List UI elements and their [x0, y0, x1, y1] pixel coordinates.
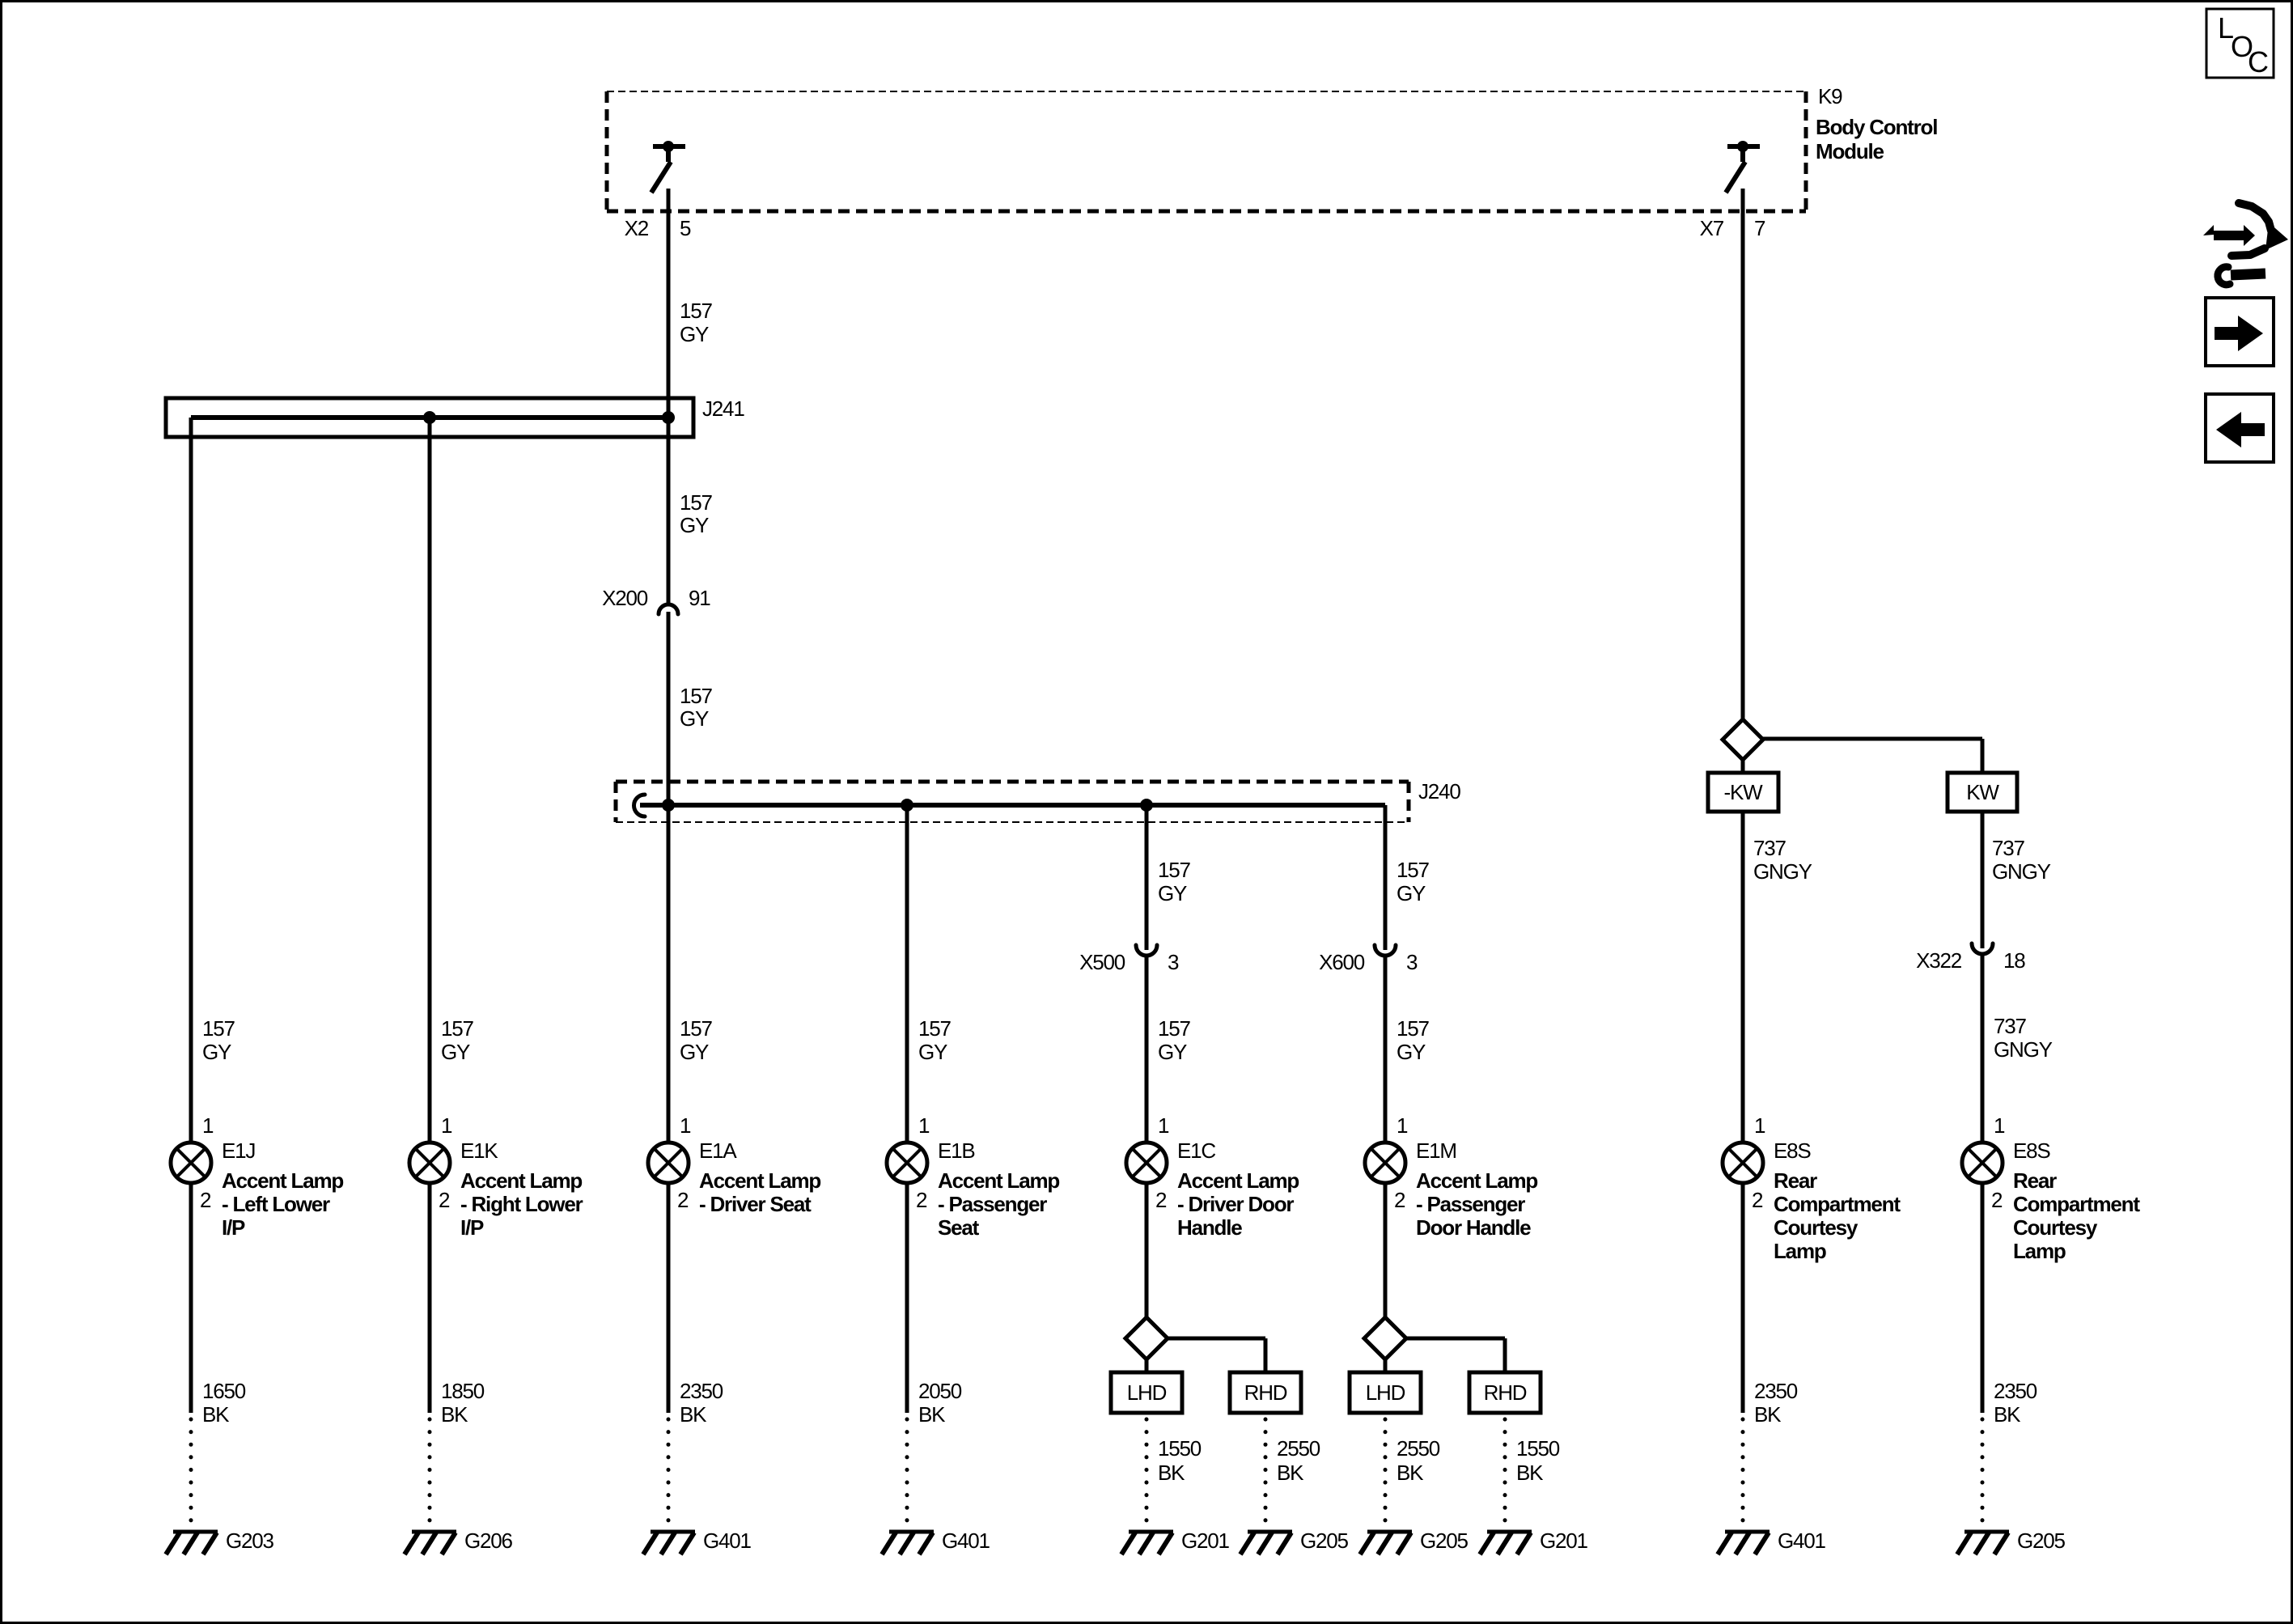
svg-text:1: 1 [1397, 1113, 1408, 1138]
svg-text:- Driver Seat: - Driver Seat [699, 1192, 812, 1216]
svg-text:1: 1 [680, 1113, 691, 1138]
svg-text:157: 157 [918, 1016, 952, 1041]
svg-text:- Passenger: - Passenger [1416, 1192, 1525, 1216]
svg-text:BK: BK [1158, 1461, 1185, 1485]
svg-text:G401: G401 [1778, 1529, 1826, 1553]
svg-text:- Right Lower: - Right Lower [460, 1192, 583, 1216]
svg-text:E1K: E1K [460, 1138, 498, 1163]
svg-text:157: 157 [441, 1016, 474, 1041]
svg-text:2: 2 [1394, 1188, 1405, 1212]
svg-text:KW: KW [1966, 780, 1999, 804]
svg-text:X2: X2 [625, 216, 649, 240]
svg-text:I/P: I/P [222, 1215, 245, 1240]
svg-text:Lamp: Lamp [2013, 1239, 2066, 1263]
svg-text:2050: 2050 [918, 1379, 962, 1403]
svg-text:BK: BK [1994, 1402, 2021, 1427]
svg-text:G401: G401 [703, 1529, 752, 1553]
svg-text:Rear: Rear [2013, 1168, 2057, 1193]
svg-text:BK: BK [680, 1402, 707, 1427]
svg-text:91: 91 [689, 586, 710, 610]
svg-text:157: 157 [202, 1016, 235, 1041]
svg-text:1: 1 [1158, 1113, 1169, 1138]
svg-text:E1A: E1A [699, 1138, 737, 1163]
svg-text:Lamp: Lamp [1774, 1239, 1826, 1263]
svg-text:157: 157 [680, 684, 713, 708]
svg-text:7: 7 [1754, 216, 1765, 240]
svg-text:Accent Lamp: Accent Lamp [938, 1168, 1059, 1193]
svg-text:737: 737 [1753, 836, 1787, 860]
svg-text:1: 1 [441, 1113, 452, 1138]
svg-text:BK: BK [441, 1402, 468, 1427]
svg-text:E8S: E8S [2013, 1138, 2050, 1163]
svg-text:E8S: E8S [1774, 1138, 1811, 1163]
svg-text:LHD: LHD [1127, 1380, 1167, 1405]
svg-text:-KW: -KW [1724, 780, 1764, 804]
svg-text:I/P: I/P [460, 1215, 484, 1240]
svg-text:J240: J240 [1418, 779, 1460, 804]
svg-text:2: 2 [439, 1188, 450, 1212]
svg-text:1: 1 [1754, 1113, 1765, 1138]
svg-text:1850: 1850 [441, 1379, 485, 1403]
svg-text:E1B: E1B [938, 1138, 975, 1163]
svg-text:2: 2 [916, 1188, 927, 1212]
svg-text:GY: GY [1397, 1040, 1426, 1064]
svg-text:LHD: LHD [1366, 1380, 1405, 1405]
svg-text:2350: 2350 [1994, 1379, 2037, 1403]
svg-text:K9: K9 [1818, 84, 1842, 108]
svg-text:2: 2 [1991, 1188, 2003, 1212]
svg-text:157: 157 [680, 490, 713, 515]
svg-text:1: 1 [1994, 1113, 2005, 1138]
svg-text:Accent Lamp: Accent Lamp [222, 1168, 343, 1193]
svg-text:GNGY: GNGY [1992, 859, 2051, 884]
svg-text:157: 157 [1158, 858, 1191, 882]
svg-text:G201: G201 [1181, 1529, 1230, 1553]
svg-text:157: 157 [680, 299, 713, 323]
svg-text:BK: BK [918, 1402, 946, 1427]
svg-text:Handle: Handle [1177, 1215, 1242, 1240]
svg-text:GY: GY [680, 706, 709, 731]
svg-text:J241: J241 [702, 396, 744, 421]
svg-text:Compartment: Compartment [1774, 1192, 1901, 1216]
svg-text:157: 157 [1397, 858, 1430, 882]
svg-text:Accent Lamp: Accent Lamp [1177, 1168, 1299, 1193]
svg-text:X322: X322 [1916, 948, 1962, 973]
svg-text:G203: G203 [226, 1529, 274, 1553]
svg-text:18: 18 [2003, 948, 2025, 973]
svg-text:157: 157 [680, 1016, 713, 1041]
svg-text:GY: GY [680, 1040, 709, 1064]
svg-text:Module: Module [1816, 139, 1884, 163]
svg-text:1: 1 [918, 1113, 930, 1138]
svg-text:BK: BK [202, 1402, 230, 1427]
svg-text:X200: X200 [602, 586, 648, 610]
svg-text:Accent Lamp: Accent Lamp [1416, 1168, 1537, 1193]
svg-text:X7: X7 [1700, 216, 1724, 240]
svg-text:GNGY: GNGY [1994, 1037, 2053, 1062]
svg-text:Body Control: Body Control [1816, 115, 1937, 139]
svg-text:3: 3 [1168, 950, 1179, 974]
svg-text:GY: GY [1397, 881, 1426, 905]
svg-text:G205: G205 [1300, 1529, 1349, 1553]
svg-text:E1J: E1J [222, 1138, 255, 1163]
svg-text:G205: G205 [1420, 1529, 1469, 1553]
svg-text:GY: GY [441, 1040, 470, 1064]
svg-text:G401: G401 [942, 1529, 990, 1553]
svg-text:Accent Lamp: Accent Lamp [460, 1168, 582, 1193]
svg-text:G201: G201 [1540, 1529, 1588, 1553]
svg-text:1550: 1550 [1158, 1436, 1202, 1461]
svg-text:GY: GY [1158, 881, 1187, 905]
svg-text:2550: 2550 [1397, 1436, 1440, 1461]
svg-text:E1M: E1M [1416, 1138, 1456, 1163]
svg-text:1650: 1650 [202, 1379, 246, 1403]
svg-text:2: 2 [677, 1188, 689, 1212]
svg-text:- Left Lower: - Left Lower [222, 1192, 330, 1216]
svg-text:Courtesy: Courtesy [2013, 1215, 2098, 1240]
svg-text:GY: GY [918, 1040, 947, 1064]
svg-text:BK: BK [1277, 1461, 1304, 1485]
svg-text:GNGY: GNGY [1753, 859, 1812, 884]
svg-text:2550: 2550 [1277, 1436, 1320, 1461]
svg-text:2: 2 [200, 1188, 211, 1212]
svg-text:737: 737 [1994, 1014, 2027, 1038]
svg-text:2: 2 [1155, 1188, 1167, 1212]
svg-text:2350: 2350 [680, 1379, 723, 1403]
svg-text:2: 2 [1752, 1188, 1763, 1212]
svg-text:G205: G205 [2017, 1529, 2066, 1553]
svg-text:GY: GY [202, 1040, 231, 1064]
svg-text:E1C: E1C [1177, 1138, 1215, 1163]
svg-text:X500: X500 [1079, 950, 1125, 974]
svg-text:1550: 1550 [1516, 1436, 1560, 1461]
svg-text:BK: BK [1397, 1461, 1424, 1485]
svg-text:3: 3 [1406, 950, 1418, 974]
svg-text:Accent Lamp: Accent Lamp [699, 1168, 820, 1193]
svg-text:1: 1 [202, 1113, 214, 1138]
svg-text:X600: X600 [1319, 950, 1365, 974]
svg-text:Seat: Seat [938, 1215, 980, 1240]
svg-text:GY: GY [680, 513, 709, 537]
svg-text:GY: GY [1158, 1040, 1187, 1064]
svg-text:BK: BK [1754, 1402, 1782, 1427]
svg-text:Compartment: Compartment [2013, 1192, 2140, 1216]
svg-text:- Passenger: - Passenger [938, 1192, 1047, 1216]
svg-text:RHD: RHD [1484, 1380, 1527, 1405]
svg-text:RHD: RHD [1244, 1380, 1287, 1405]
svg-text:157: 157 [1397, 1016, 1430, 1041]
svg-text:- Driver Door: - Driver Door [1177, 1192, 1294, 1216]
svg-text:GY: GY [680, 322, 709, 346]
svg-text:5: 5 [680, 216, 691, 240]
svg-text:2350: 2350 [1754, 1379, 1798, 1403]
svg-text:737: 737 [1992, 836, 2025, 860]
svg-text:157: 157 [1158, 1016, 1191, 1041]
svg-text:Courtesy: Courtesy [1774, 1215, 1859, 1240]
svg-text:G206: G206 [464, 1529, 513, 1553]
svg-text:Door Handle: Door Handle [1416, 1215, 1531, 1240]
svg-text:C: C [2248, 45, 2268, 78]
svg-text:Rear: Rear [1774, 1168, 1817, 1193]
svg-text:BK: BK [1516, 1461, 1544, 1485]
